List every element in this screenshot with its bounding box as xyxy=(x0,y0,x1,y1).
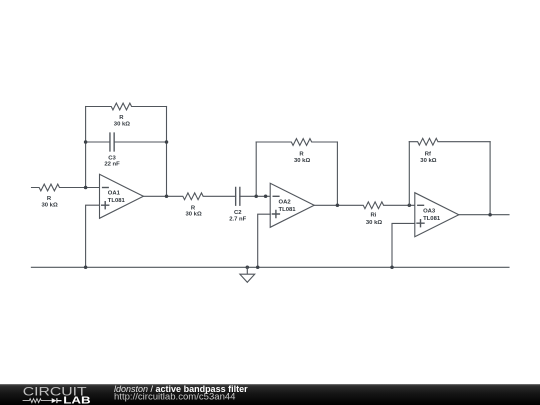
resistor R (OA1 feedback) 30 k&#937; with top wire xyxy=(86,103,167,110)
capacitor C2 plates xyxy=(236,187,240,205)
svg-text:OA1: OA1 xyxy=(108,191,121,197)
OA1 plus sign xyxy=(102,202,109,209)
wire OA1 output, resistor R 30 k&#937;, capacitor C2 to OA2 xyxy=(143,193,270,200)
junction rail ground xyxy=(246,266,250,270)
wire C3 branch xyxy=(86,141,167,143)
svg-text:30 kΩ: 30 kΩ xyxy=(420,158,436,164)
junction rail OA2+ xyxy=(256,266,260,270)
wire OA2 non-inverting input to ground rail xyxy=(258,214,271,267)
svg-text:R: R xyxy=(191,205,196,211)
junction wire node before OA2 pin xyxy=(264,195,268,199)
junction OA3 inverting input node xyxy=(408,204,412,208)
svg-text:TL081: TL081 xyxy=(108,198,126,204)
CircuitLab logo squiggle resistor xyxy=(23,399,52,403)
wire ground rail xyxy=(31,266,509,268)
wire fb1 right vertical xyxy=(166,107,168,197)
op-amp OA1 TL081 triangle xyxy=(100,174,144,218)
wire fb1 left vertical xyxy=(85,107,87,188)
wire OA3 non-inverting input to ground rail xyxy=(392,223,415,267)
svg-text:30 kΩ: 30 kΩ xyxy=(366,220,382,226)
OA3 plus sign xyxy=(417,220,424,227)
junction OA2 output node xyxy=(336,204,340,208)
svg-text:TL081: TL081 xyxy=(423,216,441,222)
svg-text:Ri: Ri xyxy=(370,213,376,219)
svg-text:30 kΩ: 30 kΩ xyxy=(294,158,310,164)
svg-text:22 nF: 22 nF xyxy=(104,162,120,168)
svg-text:C3: C3 xyxy=(108,155,116,161)
junction OA1 inverting input node xyxy=(84,186,88,190)
wire OA1 non-inverting input to ground rail xyxy=(86,205,100,267)
junction OA1 output node xyxy=(165,195,169,199)
svg-text:LAB: LAB xyxy=(63,395,90,405)
svg-text:OA2: OA2 xyxy=(279,200,292,206)
junction C3 left xyxy=(84,140,88,144)
junction OA2 inverting input node xyxy=(254,195,258,199)
wire fb3 left vertical xyxy=(408,142,410,206)
svg-text:C2: C2 xyxy=(234,210,242,216)
resistor R (input) 30 k&#937; with wire to OA1 inverting input xyxy=(32,184,100,191)
svg-text:30 kΩ: 30 kΩ xyxy=(185,212,201,218)
OA1 minus sign xyxy=(103,187,109,189)
wire fb3 right vertical xyxy=(489,142,491,215)
wire OA3 output xyxy=(459,214,509,216)
svg-text:TL081: TL081 xyxy=(279,207,297,213)
junction OA3 output node xyxy=(488,213,492,217)
svg-text:30 kΩ: 30 kΩ xyxy=(41,202,57,208)
svg-text:2.7 nF: 2.7 nF xyxy=(229,216,246,222)
OA2 minus sign xyxy=(273,195,279,197)
svg-text:R: R xyxy=(299,152,304,158)
resistor Rf 30 k&#937; with top wire xyxy=(409,138,490,145)
CircuitLab logo diode xyxy=(52,398,57,403)
svg-text:OA3: OA3 xyxy=(423,209,436,215)
junction rail OA3+ xyxy=(390,266,394,270)
svg-text:R: R xyxy=(47,196,52,202)
capacitor C3 plates xyxy=(110,133,114,151)
wire fb2 left vertical xyxy=(255,142,257,196)
wire OA2 output, resistor Ri 30 k&#937; to OA3 xyxy=(314,202,415,209)
ground symbol xyxy=(240,267,255,282)
OA3 minus sign xyxy=(418,204,424,206)
svg-text:30 kΩ: 30 kΩ xyxy=(114,121,130,127)
wire fb2 right vertical xyxy=(336,142,338,205)
resistor R (OA2 feedback) 30 k&#937; with top wire xyxy=(256,139,337,146)
svg-text:Rf: Rf xyxy=(425,152,431,158)
op-amp OA3 TL081 triangle xyxy=(415,193,459,237)
junction rail OA1+ xyxy=(84,266,88,270)
svg-text:R: R xyxy=(119,115,124,121)
op-amp OA2 TL081 triangle xyxy=(270,183,314,227)
OA2 plus sign xyxy=(272,211,279,218)
svg-text:http://circuitlab.com/c53an44: http://circuitlab.com/c53an44 xyxy=(114,392,236,402)
junction C3 right xyxy=(165,140,169,144)
